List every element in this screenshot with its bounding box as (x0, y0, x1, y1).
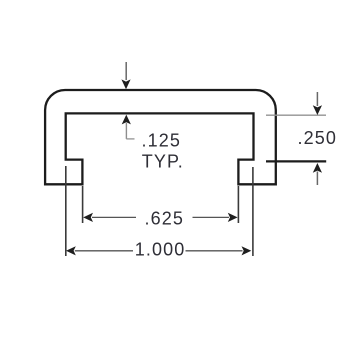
svg-text:.125: .125 (142, 131, 181, 151)
svg-text:.250: .250 (298, 128, 337, 148)
svg-text:TYP.: TYP. (142, 151, 184, 171)
svg-text:.625: .625 (145, 209, 184, 229)
svg-text:1.000: 1.000 (135, 239, 186, 259)
